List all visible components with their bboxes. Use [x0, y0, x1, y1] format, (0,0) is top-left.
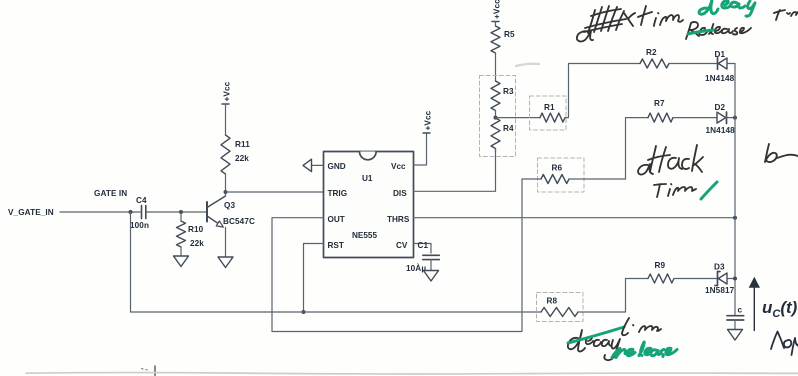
power +Vcc above R11 [222, 81, 232, 104]
node base junction B [179, 210, 183, 214]
green check mark [701, 182, 717, 199]
svg-text:CV: CV [396, 241, 408, 250]
ground C1 ground [424, 271, 439, 282]
svg-text:NE555: NE555 [352, 231, 377, 240]
wire R6 to R7 riser [626, 118, 649, 179]
svg-text:10Àµ: 10Àµ [406, 263, 426, 273]
svg-text:R5: R5 [504, 30, 515, 39]
wire C4 to Q3 base [146, 211, 207, 213]
svg-text:DIS: DIS [393, 189, 407, 198]
handwriting attack mid [638, 145, 703, 175]
svg-text:GATE IN: GATE IN [94, 189, 127, 198]
svg-text:R2: R2 [646, 48, 657, 57]
power +Vcc above R5 [492, 0, 502, 22]
scan mark bottom [154, 366, 156, 376]
resistor R4 [491, 118, 500, 149]
resistor R7 [648, 113, 673, 122]
svg-text:1N4148: 1N4148 [705, 74, 735, 83]
svg-text:GND: GND [328, 162, 346, 171]
wire DIS to divider [414, 149, 496, 191]
voltage arrow uc(t) [749, 277, 760, 331]
dashed box around R1 [530, 96, 567, 130]
svg-text:22k: 22k [235, 154, 249, 163]
handwriting time bottom [622, 318, 661, 335]
capacitor C output [727, 316, 744, 330]
wire R6 left lead [522, 178, 541, 180]
wire R7 to D2 [673, 117, 717, 119]
wire gate input lead [60, 211, 140, 213]
scan edge bottom [26, 373, 798, 374]
svg-text:+Vcc: +Vcc [424, 110, 433, 130]
svg-text:TRIG: TRIG [328, 189, 348, 198]
svg-text:R1: R1 [544, 103, 555, 112]
svg-text:100n: 100n [130, 221, 149, 230]
handwriting bu right edge [765, 144, 798, 162]
handwriting release green bottom [612, 342, 677, 357]
scan specks [142, 369, 148, 370]
node D3 node [733, 277, 737, 281]
dashed box around R6 [538, 158, 585, 192]
power +Vcc above U1 [423, 110, 433, 133]
node divider node [494, 116, 498, 120]
wire gate bottom rail [131, 212, 542, 312]
svg-text:22k: 22k [190, 239, 204, 248]
handwriting time top [638, 6, 683, 26]
ground Q3 emitter ground [218, 257, 233, 268]
handwriting Release black [686, 22, 751, 39]
node THRS node [733, 216, 737, 220]
ground R10 ground [174, 256, 189, 267]
capacitor C1 [414, 244, 440, 271]
svg-text:D2: D2 [715, 103, 726, 112]
resistor R1 [540, 113, 565, 122]
ground output cap ground [728, 330, 743, 341]
wire divider to R1 [496, 117, 541, 119]
Vcc pin wire [414, 133, 427, 165]
handwriting tim top right [774, 10, 798, 20]
node collector node [224, 190, 228, 194]
svg-text:D3: D3 [714, 263, 725, 272]
wire R2 to D1 [669, 63, 718, 65]
handwriting Time mid [654, 184, 696, 197]
svg-text:R3: R3 [503, 87, 514, 96]
dashed box around R3 R4 [480, 76, 516, 157]
node D2 node [733, 116, 737, 120]
resistor R9 [648, 274, 674, 283]
svg-text:R9: R9 [655, 261, 666, 270]
svg-text:R6: R6 [552, 164, 563, 173]
svg-text:U1: U1 [362, 174, 373, 183]
svg-text:R11: R11 [235, 140, 250, 149]
svg-text:THRS: THRS [387, 215, 410, 224]
green strike on Release [688, 30, 714, 34]
diode D1 1N4148 [718, 58, 736, 70]
GND pin port arrow [303, 159, 324, 171]
svg-text:V_GATE_IN: V_GATE_IN [8, 208, 54, 217]
resistor R8 [541, 308, 578, 317]
resistor R2 [640, 59, 669, 68]
wire collector to TRIG [226, 191, 324, 193]
handwriting 10u bottom right [771, 332, 798, 356]
op-amp U1 NE555 body [324, 152, 414, 258]
resistor R11 [221, 104, 230, 192]
svg-text:R4: R4 [503, 124, 514, 133]
diode D2 1N4148 [717, 112, 735, 124]
capacitor C4 [142, 206, 146, 219]
wire OUT loop [272, 179, 522, 332]
diode D3 1N5817 schottky [715, 272, 735, 286]
svg-text:1N4148: 1N4148 [706, 126, 736, 135]
resistor R5 [491, 22, 500, 82]
handwriting attack (scribbled out) top [577, 6, 635, 41]
wire THRS line [414, 217, 736, 219]
svg-text:R7: R7 [654, 99, 665, 108]
handwriting decay green top [699, 0, 755, 16]
svg-text:c: c [738, 306, 743, 315]
green strike on decay [568, 327, 624, 343]
wire right bus vertical [734, 64, 736, 316]
dashed box around R8 [537, 293, 584, 322]
resistor R6 [541, 175, 569, 184]
svg-text:R8: R8 [547, 297, 558, 306]
node RST node [302, 310, 306, 314]
svg-text:C1: C1 [418, 241, 429, 250]
wire RST drop [304, 244, 324, 313]
wire R9 to D3 [674, 278, 718, 280]
wire R6 right lead [569, 178, 626, 180]
svg-text:+Vcc: +Vcc [493, 0, 502, 19]
resistor R3 [491, 81, 500, 111]
svg-text:RST: RST [328, 241, 344, 250]
pencil smudge [516, 64, 539, 66]
node gate junction A [129, 210, 133, 214]
svg-text:BC547C: BC547C [223, 217, 255, 226]
transistor Q3 [207, 192, 226, 257]
svg-text:+Vcc: +Vcc [223, 81, 232, 101]
wire R4 bottom [495, 149, 497, 153]
resistor R10 [177, 212, 186, 256]
wire R3-R4 [495, 111, 497, 119]
svg-text:OUT: OUT [328, 215, 345, 224]
svg-text:D1: D1 [715, 50, 726, 59]
wire R8 to R9 riser [578, 279, 648, 313]
svg-text:R10: R10 [188, 225, 204, 234]
wire R1 up to R2 row [565, 64, 640, 118]
svg-text:Vcc: Vcc [391, 162, 406, 171]
handwriting decay bottom (struck) [568, 330, 620, 360]
svg-text:uC(t): uC(t) [762, 298, 798, 320]
svg-text:1N5817: 1N5817 [705, 286, 735, 295]
svg-text:C4: C4 [136, 196, 147, 205]
svg-text:Q3: Q3 [224, 201, 235, 210]
